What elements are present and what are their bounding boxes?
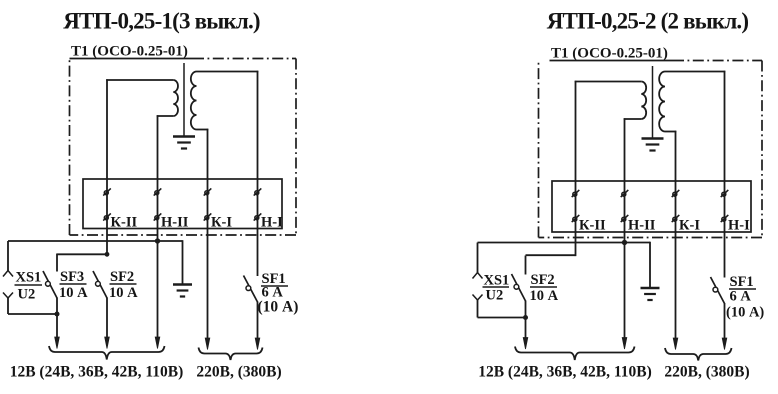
wire SF3 branch horizontal (left) <box>57 253 107 255</box>
connector XS1/U2 stem upper (right) <box>477 243 479 273</box>
svg-text:SF3: SF3 <box>60 269 84 285</box>
svg-text:10 А: 10 А <box>109 285 138 301</box>
wire SF3 upper stub (left) <box>56 254 58 272</box>
output arrow SF1 220V (left) <box>255 338 260 350</box>
wire K-II column top to primary-II coil top (left) <box>106 79 173 81</box>
svg-text:220В, (380В): 220В, (380В) <box>196 364 281 381</box>
winding II coil of T1 (left) <box>173 80 178 116</box>
wire SF2 branch horizontal (right) <box>526 254 576 256</box>
junction on N-II at feed wire (left) <box>155 238 160 243</box>
wire XS1 bottom to SF3 (left) <box>8 313 57 315</box>
svg-text:U2: U2 <box>486 288 504 304</box>
SF1 label underline (left) <box>261 285 288 287</box>
svg-text:6 А: 6 А <box>730 289 752 305</box>
dashed enclosure box T1 (right) <box>673 60 762 62</box>
output arrow K-I 220V (right) <box>673 338 678 350</box>
wire SF2 lower (right) <box>525 301 527 339</box>
svg-text:Н-II: Н-II <box>628 218 656 234</box>
output arrow SF2 12V (right) <box>523 338 528 350</box>
svg-text:XS1: XS1 <box>484 273 510 289</box>
connector XS1 pin chevron (right) <box>473 273 483 279</box>
terminal upper Н-I (left) <box>254 188 262 195</box>
output arrow SF1 220V (right) <box>722 338 727 350</box>
wire H-I column (right) <box>724 71 726 278</box>
wire coil I bottom to K-I column (left) <box>197 129 209 131</box>
svg-text:К-I: К-I <box>679 218 700 234</box>
svg-text:ЯТП-0,25-2 (2 выкл.): ЯТП-0,25-2 (2 выкл.) <box>547 9 749 34</box>
winding I coil of T1 (left) <box>191 72 197 130</box>
terminal lower Н-I (right) <box>721 215 729 222</box>
wire K-I column (left) <box>207 129 209 339</box>
winding II coil of T1 (right) <box>641 82 646 120</box>
ground stub wire (left) <box>182 240 184 284</box>
wire XS1 feed horizontal (right) <box>478 242 651 244</box>
svg-text:12В (24В, 36В, 42В, 110В): 12В (24В, 36В, 42В, 110В) <box>10 364 184 381</box>
junction on K-II branch (left) <box>105 252 110 257</box>
terminal lower К-I (right) <box>672 215 680 222</box>
output arrow K-I 220V (left) <box>205 338 210 350</box>
terminal lower Н-II (right) <box>621 215 629 222</box>
terminal lower Н-I (left) <box>254 213 262 220</box>
winding I coil of T1 (right) <box>659 72 665 132</box>
svg-text:XS1: XS1 <box>16 270 42 286</box>
svg-text:К-II: К-II <box>579 218 606 234</box>
svg-text:Н-I: Н-I <box>728 218 750 234</box>
wire H-I column (left) <box>257 71 259 276</box>
svg-text:T1 (ОСО-0.25-01): T1 (ОСО-0.25-01) <box>71 44 188 60</box>
svg-text:10 А: 10 А <box>530 288 559 304</box>
svg-text:220В, (380В): 220В, (380В) <box>664 364 749 381</box>
terminal lower Н-II (left) <box>154 213 162 220</box>
svg-text:К-I: К-I <box>211 215 232 231</box>
svg-text:U2: U2 <box>18 287 36 303</box>
wire SF3 lower (left) <box>56 298 58 339</box>
wire coil I top to H-I column (left) <box>197 71 259 73</box>
svg-text:Н-I: Н-I <box>261 215 283 231</box>
terminal upper Н-II (left) <box>154 188 162 195</box>
breaker SF2 (left) <box>93 271 107 298</box>
SF2 label underline (left) <box>110 283 137 285</box>
terminal lower К-II (left) <box>103 213 111 220</box>
junction XS1-SF2 (right) <box>523 315 528 320</box>
terminal upper Н-II (right) <box>621 190 629 197</box>
wire coil I top to H-I column (right) <box>665 71 725 73</box>
wire K-II column (left) <box>106 79 108 254</box>
brace 12V outputs (left) <box>49 346 165 360</box>
SF1 label underline (right) <box>729 288 756 290</box>
svg-text:(10 А): (10 А) <box>258 299 299 316</box>
wire K-II column top to coil II top (right) <box>575 81 642 83</box>
terminal lower К-I (left) <box>204 213 212 220</box>
connector XS1 stem lower (right) <box>477 300 479 318</box>
output arrow N-II 12V (left) <box>155 337 160 349</box>
terminal upper Н-I (right) <box>721 190 729 197</box>
output arrow SF3 12V (left) <box>55 337 60 349</box>
dashed enclosure box T1 (left) <box>193 58 296 60</box>
breaker SF1 (right) <box>711 277 725 304</box>
T1 label underline (right) <box>550 60 674 62</box>
wire N-II column (right) <box>624 118 626 338</box>
brace 220V outputs (right) <box>665 348 732 361</box>
svg-text:12В (24В, 36В, 42В, 110В): 12В (24В, 36В, 42В, 110В) <box>478 364 652 381</box>
T1 label underline (left) <box>70 58 194 60</box>
ground symbol lower (left) <box>173 283 192 285</box>
SF2 label underline (right) <box>530 286 557 288</box>
svg-text:Н-II: Н-II <box>161 215 189 231</box>
terminal upper К-II (left) <box>103 188 111 195</box>
transformer core/screen line (right) <box>652 66 654 138</box>
junction on N-II at feed wire (right) <box>622 240 627 245</box>
ground symbol under T1 (left) <box>173 135 195 137</box>
ground stub wire (right) <box>649 242 651 288</box>
XS1/U2 fraction bar (right) <box>483 286 510 288</box>
terminal block box (left) <box>83 179 282 229</box>
terminal lower К-II (right) <box>572 215 580 222</box>
terminal block box (right) <box>552 181 751 232</box>
connector XS1 stem lower (left) <box>7 298 9 315</box>
output arrow N-II 12V (right) <box>622 338 627 350</box>
brace 220V outputs (left) <box>199 348 263 361</box>
SF3 label underline (left) <box>60 283 87 285</box>
svg-text:(10 А): (10 А) <box>726 305 764 321</box>
svg-text:К-II: К-II <box>111 215 138 231</box>
wire SF1 lower (left) <box>257 302 259 340</box>
wire coil II bottom to N-II column (right) <box>624 118 642 120</box>
wire SF1 lower (right) <box>724 303 726 339</box>
connector XS1 socket chevron (right) <box>473 295 483 301</box>
svg-text:10 А: 10 А <box>59 285 88 301</box>
terminal upper К-I (right) <box>672 190 680 197</box>
wire coil II bottom to N-II column (left) <box>157 115 174 117</box>
breaker SF3 (left) <box>43 271 57 298</box>
wire XS1 bottom to SF2 (right) <box>478 317 526 319</box>
connector XS1/U2 stem upper (left) <box>7 241 9 271</box>
output arrow SF2 12V (left) <box>105 337 110 349</box>
terminal upper К-II (right) <box>572 190 580 197</box>
wire K-I column (right) <box>675 131 677 339</box>
wire SF2 upper stub (right) <box>525 256 527 275</box>
terminal upper К-I (left) <box>204 188 212 195</box>
svg-text:ЯТП-0,25-1(3 выкл.): ЯТП-0,25-1(3 выкл.) <box>63 9 260 34</box>
ground symbol under T1 (right) <box>642 137 664 139</box>
wire K-II column (right) <box>575 81 577 256</box>
wire coil I bottom to K-I column (right) <box>665 131 676 133</box>
svg-text:SF2: SF2 <box>110 269 134 285</box>
transformer core/screen line (left) <box>183 63 185 136</box>
wire N-II column (left) <box>157 115 159 338</box>
svg-text:SF2: SF2 <box>531 272 555 288</box>
connector XS1 socket chevron (left) <box>3 293 13 299</box>
breaker SF2 (right) <box>512 274 526 301</box>
wire SF2 lower (left) <box>106 298 108 339</box>
breaker SF1 (left) <box>244 276 258 303</box>
brace 12V outputs (right) <box>515 347 635 361</box>
XS1/U2 fraction bar (left) <box>15 284 43 286</box>
connector XS1 pin chevron (left) <box>3 271 13 277</box>
junction XS1-SF3 (left) <box>55 312 60 317</box>
wire XS1 feed horizontal (left) <box>8 240 183 242</box>
ground symbol lower (right) <box>641 287 660 289</box>
svg-text:T1 (ОСО-0.25-01): T1 (ОСО-0.25-01) <box>551 46 668 62</box>
